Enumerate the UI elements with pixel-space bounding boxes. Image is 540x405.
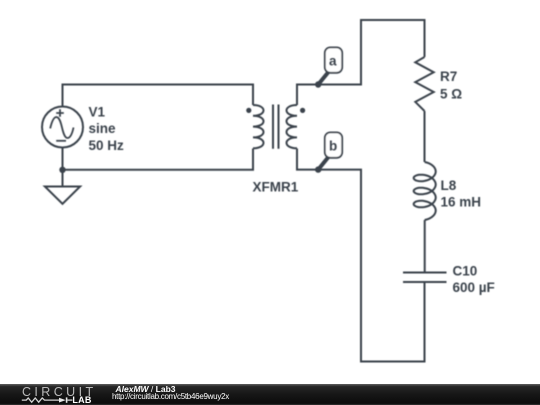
polarity dot primary (246, 108, 251, 113)
svg-text:R7: R7 (440, 69, 457, 84)
node b flag (325, 132, 342, 157)
svg-text:XFMR1: XFMR1 (253, 180, 299, 195)
node a flag tail (318, 73, 328, 85)
node b flag tail (318, 158, 328, 170)
capacitor C10 (403, 273, 447, 283)
wire: transformer primary bottom to V1 bottom rail (63, 147, 254, 170)
svg-text:V1: V1 (89, 105, 106, 120)
wire: L8 to C10 (424, 220, 426, 273)
svg-text:5 Ω: 5 Ω (440, 87, 462, 102)
transformer core (273, 105, 279, 149)
svg-text:b: b (329, 139, 337, 154)
voltage source V1 (42, 107, 83, 148)
wire: R7 to L8 (424, 111, 426, 162)
node a flag (325, 47, 342, 72)
logo diode (59, 398, 66, 403)
svg-text:LAB: LAB (72, 395, 91, 405)
wire: secondary bottom pin to node b, right rail down (297, 149, 425, 362)
resistor R7 (415, 57, 433, 111)
wire: V1 top to transformer primary top (63, 85, 254, 108)
svg-text:50 Hz: 50 Hz (89, 138, 125, 153)
svg-text:C10: C10 (453, 264, 478, 279)
node junction at V1 bottom (59, 167, 65, 173)
logo zigzag wire (22, 398, 59, 402)
transformer XFMR1 primary winding (253, 105, 264, 148)
ground (45, 187, 80, 204)
transformer XFMR1 secondary winding (287, 105, 298, 148)
wire: secondary top pin to node a and up to top rail (297, 20, 425, 105)
inductor L8 (414, 162, 436, 220)
svg-text:a: a (329, 54, 337, 69)
footer bar (0, 384, 540, 405)
svg-text:sine: sine (89, 121, 117, 136)
node b junction dot (315, 166, 321, 172)
wire: ground stem (62, 170, 64, 187)
svg-text:http://circuitlab.com/c5tb46e9: http://circuitlab.com/c5tb46e9wuy2x (112, 392, 229, 401)
svg-text:600 µF: 600 µF (453, 280, 495, 295)
svg-text:16 mH: 16 mH (441, 195, 482, 210)
polarity dot secondary (300, 108, 305, 113)
svg-text:L8: L8 (441, 178, 457, 193)
node a junction dot (315, 81, 321, 87)
